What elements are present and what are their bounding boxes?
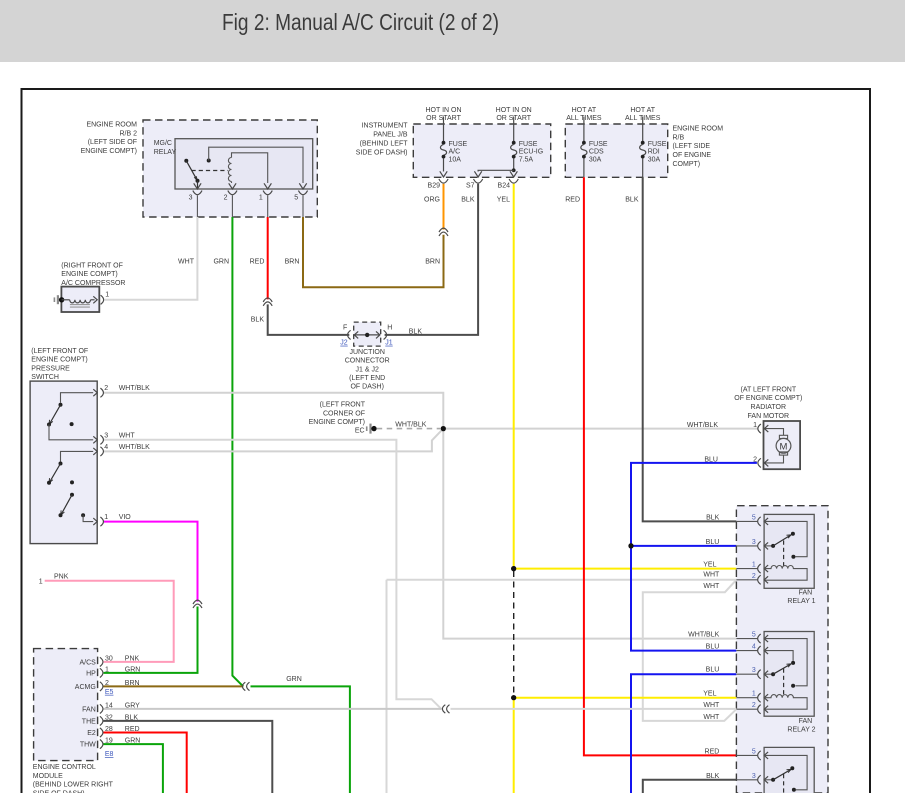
svg-text:E8: E8 [105, 751, 114, 758]
relay FAN RELAY 3 inner box (cut at page bottom) [764, 747, 814, 793]
connector cup B24 [509, 179, 518, 183]
node YEL relay2 restamp [511, 695, 516, 700]
node YEL relay1 restamp [511, 566, 516, 571]
MG/C relay dashed box [143, 120, 317, 217]
relay MG/C wire coil bottom to pin2 [231, 182, 233, 184]
svg-text:ENGINE COMPT): ENGINE COMPT) [309, 419, 365, 426]
bottom page cutoff [0, 793, 905, 810]
svg-text:WHT: WHT [703, 583, 720, 590]
svg-text:RED: RED [705, 748, 720, 755]
svg-text:J1: J1 [385, 340, 393, 347]
svg-text:RDI: RDI [648, 149, 660, 156]
fuse CDS 30A [581, 117, 587, 178]
ECM dashed box [34, 649, 98, 761]
svg-text:BRN: BRN [425, 259, 440, 266]
A/C compressor ground stub [54, 295, 65, 304]
relay MG/C coil link dashed [192, 170, 229, 172]
svg-text:WHT: WHT [178, 259, 195, 266]
wire VIO pressure switch pin1 [104, 522, 198, 602]
ECM pin E2 28 [100, 728, 103, 737]
svg-text:YEL: YEL [703, 562, 716, 569]
relay MG/C coil [228, 158, 231, 182]
svg-text:ENGINE ROOM: ENGINE ROOM [673, 125, 724, 132]
label (LEFT FRONT OF ENGINE COMPT) PRESSURE SWITCH [31, 348, 88, 381]
relay MG/C inner box [175, 139, 313, 189]
svg-text:OF DASH): OF DASH) [350, 384, 383, 391]
wire BLK break down and right to junction connector [268, 304, 350, 335]
pressure switch pin 1 arrow and cup [93, 517, 103, 526]
svg-text:WHT: WHT [703, 571, 720, 578]
node YEL relay2 branch [511, 695, 516, 700]
svg-text:R/B: R/B [673, 134, 685, 141]
node YEL relay1 branch [511, 566, 516, 571]
ECM pin FAN 14 [100, 704, 103, 713]
svg-text:FAN: FAN [82, 706, 96, 713]
svg-text:FAN MOTOR: FAN MOTOR [748, 413, 789, 420]
relay2 switch arm [764, 664, 791, 676]
svg-text:(RIGHT FRONT OF: (RIGHT FRONT OF [61, 262, 123, 269]
svg-text:1: 1 [39, 578, 43, 585]
ECM pin A/CS 30 [100, 657, 103, 666]
relay MG/C pin 3 arrow and cup [193, 183, 202, 217]
relay2 pin 5 cup and arrow [758, 634, 768, 643]
relay1 pin3 thin lead [736, 545, 757, 547]
relay MG/C pin 5 arrow and cup [298, 183, 307, 217]
A/C compressor pin 1 cup [101, 295, 104, 304]
svg-text:WHT: WHT [119, 432, 136, 439]
svg-text:GRN: GRN [213, 259, 229, 266]
connector cup S7 [474, 179, 483, 183]
wire BLU node to fan relay1 pin3 [631, 545, 736, 547]
wire GRY ECM FAN to splice [104, 708, 442, 710]
relay2 pin1 thin lead [736, 697, 757, 699]
header bar [0, 0, 905, 62]
wire BRN relay pin5 down right and up to ORG break [303, 217, 444, 287]
junction connector internals [348, 330, 387, 339]
radiator fan motor box [764, 421, 801, 469]
wire BRN ECM ACMG to splice [104, 685, 244, 687]
svg-text:E2: E2 [87, 730, 96, 737]
wire YEL node to fan relay2 pin1 [514, 697, 737, 699]
wire WHT fan relay1 pin2 branch down to relay3 [386, 580, 388, 793]
relay3 pin5 thin lead [736, 754, 757, 756]
svg-text:HP: HP [86, 670, 96, 677]
svg-text:BLU: BLU [706, 666, 720, 673]
splice break ORG to BRN [439, 228, 448, 236]
wire GRN below break to ECM HP pin [104, 607, 198, 673]
wire WHT FAN splice to relay2 pin2 [451, 708, 737, 710]
svg-text:(LEFT SIDE: (LEFT SIDE [673, 143, 711, 150]
label FUSE CDS 30A [589, 141, 608, 164]
svg-text:B24: B24 [498, 183, 511, 190]
svg-text:M: M [780, 441, 788, 452]
svg-text:INSTRUMENT: INSTRUMENT [362, 123, 409, 130]
relay MG/C pin 1 arrow and cup [263, 183, 272, 217]
label JUNCTION CONNECTOR J1 &amp; J2 (LEFT END OF DASH) [345, 349, 390, 391]
wire BLK ECM THE down offpage [104, 721, 273, 793]
relay3 pin5 wire to right side [764, 755, 807, 789]
relay1 pin5 wire to fixed contact [764, 521, 807, 558]
relay2 coil [764, 695, 807, 710]
node EC junction [441, 426, 446, 431]
svg-text:HOT AT: HOT AT [572, 107, 597, 114]
wire RED fuse CDS down to fan relay3 pin5 [584, 177, 737, 755]
relay1 pin2 thin lead [736, 579, 757, 581]
wire RED relay pin1 down [267, 217, 269, 299]
svg-text:FUSE: FUSE [589, 141, 608, 148]
svg-text:YEL: YEL [497, 197, 510, 204]
svg-text:GRN: GRN [286, 676, 302, 683]
svg-text:RELAY: RELAY [154, 149, 177, 156]
relay FAN RELAY 1 inner box [764, 514, 814, 588]
relay1 actuator dashed link [783, 541, 785, 567]
instrument panel J/B dashed box [413, 124, 550, 177]
label FUSE A/C 10A [449, 141, 468, 164]
svg-text:PNK: PNK [54, 573, 69, 580]
svg-text:HOT IN ON: HOT IN ON [496, 107, 532, 114]
ECM pin THW 19 [100, 740, 103, 749]
svg-text:FAN: FAN [799, 718, 813, 725]
svg-text:30A: 30A [589, 156, 602, 163]
label FUSE RDI 30A [648, 141, 667, 164]
wire WHT relay pin3 down-left to compressor [105, 217, 198, 300]
svg-text:HOT AT: HOT AT [630, 107, 655, 114]
svg-text:5: 5 [752, 748, 756, 755]
svg-text:R/B 2: R/B 2 [119, 130, 137, 137]
inline connector splice FAN [442, 705, 449, 713]
svg-text:WHT/BLK: WHT/BLK [119, 444, 150, 451]
svg-text:3: 3 [189, 195, 193, 202]
relay2 pin 4 cup and arrow [758, 646, 768, 655]
ECM pin HP 1 [100, 668, 103, 677]
svg-text:(BEHIND LEFT: (BEHIND LEFT [360, 140, 409, 147]
svg-text:(LEFT FRONT OF: (LEFT FRONT OF [31, 348, 88, 355]
svg-text:CDS: CDS [589, 149, 604, 156]
svg-text:F: F [343, 325, 347, 332]
svg-text:BLU: BLU [706, 644, 720, 651]
svg-text:BLK: BLK [706, 514, 720, 521]
svg-text:ORG: ORG [424, 197, 440, 204]
pressure switch lower contact network [47, 451, 93, 521]
wire WHT/BLK pressure switch pin2 to EC node [104, 393, 443, 429]
relay2 pin 3 cup and arrow [758, 670, 768, 679]
wire BLU motor pin2 left and down [631, 463, 757, 545]
node BLU restamp [628, 543, 633, 548]
svg-text:2: 2 [224, 195, 228, 202]
label FUSE ECU-IG 7.5A [519, 141, 544, 164]
svg-text:BLK: BLK [461, 197, 475, 204]
relay MG/C pin 2 arrow and cup [228, 183, 237, 217]
svg-text:(LEFT FRONT: (LEFT FRONT [320, 402, 366, 409]
pressure switch pin 4 arrow and cup [93, 447, 103, 456]
svg-text:1: 1 [752, 562, 756, 569]
relay3 pin3 thin lead [736, 779, 757, 781]
fan relay assembly dashed box [736, 506, 828, 793]
svg-text:BLK: BLK [625, 197, 639, 204]
wire WHT/BLK EC node to radiator fan motor pin1 [443, 428, 758, 430]
label FAN RELAY 2 [787, 718, 815, 734]
svg-text:PNK: PNK [125, 655, 140, 662]
relay1 pin5 thin lead [736, 520, 757, 522]
svg-text:(AT LEFT FRONT: (AT LEFT FRONT [740, 386, 796, 393]
fuse RDI 30A [640, 117, 646, 178]
relay2 pin3 thin lead [736, 673, 757, 675]
ECM pin ACMG 2 [100, 682, 103, 691]
svg-text:OF ENGINE: OF ENGINE [673, 152, 712, 159]
svg-text:1: 1 [104, 514, 108, 521]
splice break VIO to GRN [193, 600, 202, 608]
svg-text:MODULE: MODULE [33, 773, 63, 780]
connector cup B29 [439, 179, 448, 183]
relay MG/C switch contacts [184, 159, 210, 190]
svg-text:(BEHIND LOWER RIGHT: (BEHIND LOWER RIGHT [33, 782, 114, 789]
svg-text:FUSE: FUSE [449, 141, 468, 148]
svg-text:5: 5 [294, 195, 298, 202]
svg-text:BLU: BLU [706, 539, 720, 546]
relay MG/C wire pin5 to contact [209, 147, 303, 183]
svg-text:1: 1 [105, 292, 109, 299]
pressure switch pin 2 arrow and cup [93, 388, 103, 397]
svg-text:E5: E5 [105, 689, 114, 696]
node EC junction restamp [441, 426, 446, 431]
wire BLK fuse S7 down and left to junction connector [385, 184, 479, 335]
svg-text:CORNER OF: CORNER OF [323, 410, 365, 417]
svg-text:WHT/BLK: WHT/BLK [119, 385, 150, 392]
svg-text:PRESSURE: PRESSURE [31, 365, 70, 372]
wire WHT/BLK EC node down to fan relay2 pin5 [443, 429, 736, 639]
wire BLU node down to fan relay2 pin4 [631, 546, 736, 651]
svg-text:EC: EC [355, 427, 365, 434]
svg-text:BLK: BLK [409, 328, 423, 335]
svg-text:B29: B29 [428, 183, 441, 190]
inline connector splice ACMG [242, 682, 249, 690]
motor pin 1 cup and arrow [758, 424, 768, 433]
svg-text:GRN: GRN [125, 666, 141, 673]
svg-text:30A: 30A [648, 156, 661, 163]
relay1 pin 3 cup and arrow [758, 541, 768, 550]
motor pin 2 cup and arrow [758, 458, 768, 467]
relay1 pin 2 cup and arrow [758, 575, 768, 584]
fuse ECU-IG 7.5A [510, 117, 517, 178]
A/C compressor box [61, 287, 99, 312]
svg-text:ECU-IG: ECU-IG [519, 149, 544, 156]
label ENGINE ROOM R/B (LEFT SIDE OF ENGINE COMPT) [673, 125, 724, 168]
svg-text:H: H [387, 325, 392, 332]
svg-text:2: 2 [752, 702, 756, 709]
svg-text:1: 1 [259, 195, 263, 202]
svg-text:1: 1 [753, 422, 757, 429]
relay3 pin 5 cup and arrow [758, 751, 768, 760]
svg-text:FUSE: FUSE [519, 141, 538, 148]
relay1 switch arm [764, 532, 795, 548]
svg-text:CONNECTOR: CONNECTOR [345, 358, 390, 365]
wire GRN MG/C relay pin2 down to ACMG splice [232, 217, 243, 686]
relay2 pin 2 cup and arrow [758, 705, 768, 714]
ground EC symbol [366, 424, 377, 434]
svg-text:THW: THW [80, 742, 96, 749]
svg-text:ENGINE COMPT): ENGINE COMPT) [31, 357, 87, 364]
relay FAN RELAY 2 inner box [764, 632, 814, 717]
relay2 actuator dashed link [783, 669, 785, 695]
svg-text:3: 3 [752, 773, 756, 780]
svg-text:RED: RED [565, 197, 580, 204]
wire YEL node to fan relay1 pin1 [514, 568, 737, 570]
relay2 pin4 wire to upper contact [764, 651, 795, 665]
svg-text:(LEFT SIDE OF: (LEFT SIDE OF [88, 139, 137, 146]
junction connector dashed box [354, 322, 381, 346]
label (AT LEFT FRONT OF ENGINE COMPT) RADIATOR FAN MOTOR [734, 386, 802, 420]
svg-text:RED: RED [250, 259, 265, 266]
svg-text:FUSE: FUSE [648, 141, 667, 148]
relay1 pin 1 cup and arrow [758, 564, 768, 573]
svg-text:WHT/BLK: WHT/BLK [395, 421, 426, 428]
svg-text:3: 3 [104, 432, 108, 439]
wire dashed EC ground to node [377, 428, 440, 430]
pressure switch pin 3 arrow and cup [93, 435, 103, 444]
svg-text:(LEFT END: (LEFT END [349, 375, 385, 382]
label (RIGHT FRONT OF ENGINE COMPT) A/C COMPRESSOR [61, 262, 125, 287]
svg-text:JUNCTION: JUNCTION [350, 349, 385, 356]
relay3 switch arm [764, 766, 796, 792]
relay1 coil [764, 566, 807, 581]
svg-text:A/C: A/C [449, 149, 461, 156]
relay1 pin1 thin lead [736, 568, 757, 570]
svg-text:ENGINE ROOM: ENGINE ROOM [86, 121, 137, 128]
svg-text:4: 4 [752, 644, 756, 651]
label ENGINE ROOM R/B 2 (LEFT SIDE OF ENGINE COMPT) [81, 121, 138, 155]
wire ORG fuse B29 down [443, 184, 445, 230]
wire BLK relay3 pin3 left and down offpage [643, 780, 737, 793]
label MG/C RELAY [154, 140, 177, 156]
svg-text:WHT/BLK: WHT/BLK [688, 632, 719, 639]
wire GRN ECM THW down offpage [104, 744, 163, 793]
svg-text:J1 & J2: J1 & J2 [356, 366, 379, 373]
label ENGINE CONTROL MODULE (BEHIND LOWER RIGHT SIDE OF DASH) [33, 764, 114, 797]
relay1 pin 5 cup and arrow [758, 517, 768, 526]
relay MG/C wire coil top to pin1 [232, 153, 268, 183]
svg-text:ACMG: ACMG [75, 684, 96, 691]
svg-text:BLK: BLK [706, 773, 720, 780]
svg-text:MG/C: MG/C [154, 140, 172, 147]
relay3 pin 3 cup and arrow [758, 775, 768, 784]
relay2 pin5 thin lead [736, 638, 757, 640]
wire RED ECM E2 down offpage [104, 733, 187, 794]
svg-text:COMPT): COMPT) [673, 161, 701, 168]
svg-text:2: 2 [104, 385, 108, 392]
svg-text:S7: S7 [466, 183, 475, 190]
svg-text:WHT: WHT [703, 714, 720, 721]
wire dashed link YEL nodes [513, 571, 515, 696]
wire WHT fan relay1 pin2 horizontal [387, 579, 737, 581]
wire WHT/BLK pressure switch pin4 to EC node [104, 429, 443, 452]
svg-text:3: 3 [752, 539, 756, 546]
relay2 pin5 wire to fixed contact [764, 639, 807, 688]
wire WHT pressure switch pin3 down to FAN splice [104, 440, 442, 710]
svg-text:VIO: VIO [119, 514, 132, 521]
svg-text:4: 4 [104, 444, 108, 451]
label INSTRUMENT PANEL J/B (BEHIND LEFT SIDE OF DASH) [356, 123, 408, 157]
svg-text:RADIATOR: RADIATOR [751, 404, 787, 411]
svg-text:ENGINE CONTROL: ENGINE CONTROL [33, 764, 96, 771]
svg-text:BRN: BRN [285, 259, 300, 266]
svg-text:A/CS: A/CS [79, 659, 96, 666]
wire BLK fuse RDI down to fan relay1 pin5 [643, 177, 737, 521]
label (LEFT FRONT CORNER OF ENGINE COMPT) [309, 402, 366, 426]
svg-text:ENGINE COMPT): ENGINE COMPT) [61, 271, 117, 278]
svg-text:3: 3 [752, 667, 756, 674]
svg-text:10A: 10A [449, 156, 462, 163]
svg-text:2: 2 [752, 573, 756, 580]
svg-text:1: 1 [105, 666, 109, 673]
svg-text:WHT/BLK: WHT/BLK [687, 422, 718, 429]
svg-text:OF ENGINE COMPT): OF ENGINE COMPT) [734, 395, 802, 402]
ECM pin THE 32 [100, 716, 103, 725]
relay2 pin4 thin lead [736, 650, 757, 652]
relay2 pin2 thin lead [736, 708, 757, 710]
svg-text:BLK: BLK [251, 316, 265, 323]
wire YEL node down offpage [513, 698, 515, 793]
svg-text:RELAY 2: RELAY 2 [787, 726, 815, 733]
fuse A/C 10A [440, 117, 447, 178]
svg-text:HOT IN ON: HOT IN ON [425, 107, 461, 114]
svg-text:FAN: FAN [799, 590, 813, 597]
svg-text:J2: J2 [340, 340, 348, 347]
wire WHT fan relay1 pin2 jog down to relay2 pin2 [643, 580, 737, 721]
svg-text:1: 1 [752, 691, 756, 698]
svg-text:RELAY 1: RELAY 1 [787, 598, 815, 605]
svg-text:SWITCH: SWITCH [31, 374, 59, 381]
svg-text:5: 5 [752, 632, 756, 639]
svg-text:YEL: YEL [703, 691, 716, 698]
engine room R/B dashed box [565, 124, 667, 177]
wire BLU fan relay2 pin3 corner down offpage [631, 674, 736, 793]
wire YEL fuse B24 down to node [513, 184, 515, 568]
motor M symbol [765, 429, 791, 463]
A/C compressor clutch coil [62, 296, 98, 307]
wire GRN ACMG splice right and down offpage [251, 686, 350, 793]
node S7 branch from ECU-IG fuse [474, 168, 515, 177]
relay2 pin 1 cup and arrow [758, 693, 768, 702]
svg-text:Fig 2: Manual A/C Circuit (2 o: Fig 2: Manual A/C Circuit (2 of 2) [222, 9, 499, 35]
svg-text:30: 30 [105, 655, 113, 662]
relay3 actuator dashed link [783, 774, 785, 793]
pressure switch upper contact network [47, 393, 93, 440]
label FAN RELAY 1 [787, 590, 815, 606]
svg-text:THE: THE [82, 718, 96, 725]
node BLU relay1 pin3 branch [628, 543, 633, 548]
svg-text:SIDE OF DASH): SIDE OF DASH) [356, 149, 408, 156]
svg-text:PANEL J/B: PANEL J/B [373, 132, 408, 139]
wire PNK stub to ECM A/CS pin [45, 581, 174, 662]
svg-text:5: 5 [752, 514, 756, 521]
splice break RED to BLK [263, 298, 272, 306]
pressure switch box [30, 381, 97, 543]
svg-text:7.5A: 7.5A [519, 156, 534, 163]
svg-text:ENGINE COMPT): ENGINE COMPT) [81, 148, 137, 155]
